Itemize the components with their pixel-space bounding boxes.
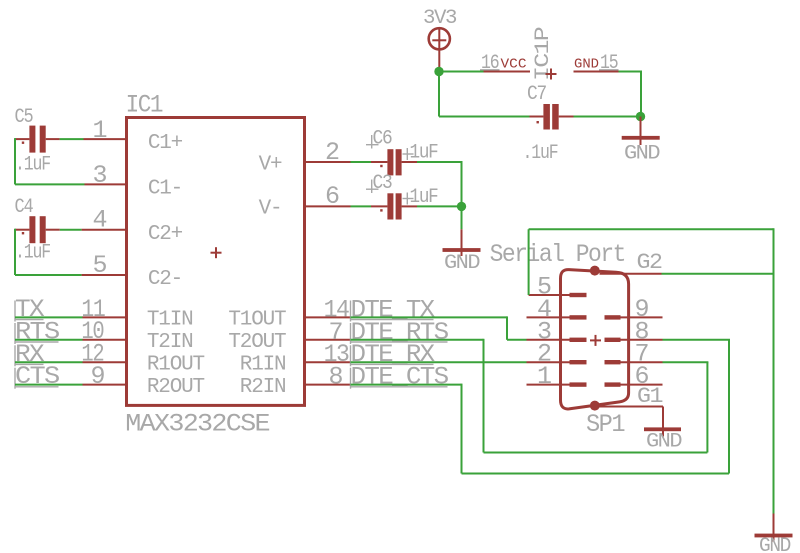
svg-text:8: 8	[329, 362, 343, 391]
net label RX	[15, 340, 45, 369]
pin IC1 pin 5 C2-	[82, 274, 127, 276]
wire C5 left vertical	[14, 138, 16, 184]
net label DTE_RTS	[351, 318, 449, 347]
wire GND net vertical	[640, 71, 642, 117]
net label RTS	[15, 317, 59, 346]
net label DTE_CTS	[351, 362, 449, 391]
pin SP1 pin 2	[527, 340, 587, 369]
svg-text:4: 4	[93, 205, 107, 234]
pin IC1 pin 1 C1+	[84, 138, 127, 140]
pin SP1 pin 6	[605, 362, 663, 391]
svg-text:3: 3	[93, 161, 107, 190]
wire RTS	[15, 339, 83, 341]
pin SP1 pin 1	[527, 362, 587, 391]
net label TX	[15, 295, 45, 324]
svg-text:1: 1	[93, 116, 107, 145]
pin SP1 G2	[600, 250, 662, 275]
wire GND net to corner	[619, 71, 642, 73]
pin SP1 pin 9	[605, 295, 663, 324]
label C3 with origin cross	[366, 172, 392, 195]
svg-text:C7: C7	[527, 83, 546, 106]
pin SP1 pin 8	[605, 317, 663, 346]
capacitor C4	[15, 216, 60, 243]
svg-text:C1+: C1+	[148, 132, 183, 155]
svg-text:Serial Port: Serial Port	[490, 240, 625, 269]
connector SP1 DB9 shell	[561, 270, 629, 409]
wire C3 to junction	[417, 205, 462, 207]
ground GND bottom right	[755, 514, 793, 553]
wire DTE_CTS to SP1 pin 8	[663, 339, 731, 341]
pin IC1P pin 16 VCC	[484, 71, 531, 73]
wire C6 vertical down	[461, 161, 463, 206]
svg-text:T1OUT: T1OUT	[228, 309, 286, 332]
junction node V- GND	[457, 202, 466, 211]
wire DTE_RTS bottom	[484, 452, 708, 454]
svg-text:C3: C3	[373, 172, 392, 195]
net label DTE_TX	[351, 295, 436, 324]
wire TX	[15, 316, 83, 318]
wire RX	[15, 361, 83, 363]
wire C5 to pin 1	[60, 138, 84, 140]
connector SP1 mounting hole G1	[590, 401, 600, 411]
svg-text:5: 5	[93, 251, 107, 280]
pin SP1 pin 4	[527, 295, 587, 324]
capacitor C5	[15, 126, 60, 153]
ground GND middle	[443, 229, 481, 275]
wire VCC net vertical	[438, 72, 440, 117]
value 1uF of C3 with origin cross	[403, 186, 438, 209]
pin IC1 pin 12 R1OUT	[83, 361, 127, 363]
pin IC1 pin 13 R1IN	[305, 361, 351, 363]
capacitor C7	[530, 104, 574, 130]
svg-text:9: 9	[91, 362, 105, 391]
junction 3V3 node	[434, 67, 443, 76]
wire GND net top horizontal	[529, 228, 774, 230]
pin IC1 pin 11 T1IN	[83, 316, 127, 318]
svg-text:C6: C6	[373, 128, 392, 151]
wire DTE_CTS vertical right	[728, 340, 730, 474]
svg-text:SP1: SP1	[586, 410, 625, 439]
svg-text:DTE_CTS: DTE_CTS	[351, 362, 449, 391]
pin IC1 pin 7 T2OUT	[305, 339, 351, 341]
svg-text:GND: GND	[574, 57, 599, 73]
wire DTE_TX horizontal	[351, 316, 508, 318]
supply symbol 3V3	[429, 28, 450, 50]
wire DTE_RTS horizontal	[351, 339, 484, 341]
wire C5 bottom to pin 3	[15, 183, 85, 185]
svg-text:MAX3232CSE: MAX3232CSE	[125, 410, 269, 439]
svg-text:V-: V-	[259, 198, 282, 221]
svg-text:T2IN: T2IN	[147, 331, 193, 354]
wire DTE_RTS vertical left	[483, 339, 485, 453]
wire DTE_RTS vertical right	[706, 362, 708, 452]
pin SP1 pin 3	[527, 317, 587, 346]
pin SP1 G1	[600, 384, 664, 409]
svg-text:IC1: IC1	[126, 90, 163, 119]
svg-text:G1: G1	[637, 384, 663, 409]
svg-text:C2+: C2+	[148, 223, 183, 246]
svg-text:1: 1	[537, 362, 551, 391]
wire DTE_RX to SP1 pin 2	[351, 361, 527, 363]
ground GND at G1	[644, 407, 681, 454]
svg-text:V+: V+	[259, 153, 282, 176]
pin IC1 pin 10 T2IN	[83, 339, 127, 341]
svg-text:2: 2	[325, 138, 339, 167]
wire GND net right vertical	[773, 228, 775, 513]
junction node at C7 right	[636, 112, 645, 121]
svg-text:.1uF: .1uF	[15, 241, 50, 264]
pin IC1 pin 2 V+	[305, 161, 351, 163]
wire SP1 pin 5 vertical	[528, 229, 530, 295]
svg-text:3V3: 3V3	[423, 7, 456, 30]
wire C4 bottom to pin 5	[15, 274, 82, 276]
pin IC1 pin 4 C2+	[82, 229, 127, 231]
svg-text:.1uF: .1uF	[15, 153, 50, 176]
pin IC1 pin 9 R2OUT	[83, 384, 127, 386]
wire G2 to GND net	[662, 273, 774, 275]
wire junction down	[461, 206, 463, 229]
pin IC1 pin 8 R2IN	[305, 384, 351, 386]
wire 3V3 lead	[438, 49, 440, 72]
svg-text:16: 16	[481, 52, 499, 75]
svg-text:C2-: C2-	[148, 268, 182, 291]
svg-text:C1-: C1-	[148, 178, 182, 201]
wire V- to C3	[351, 205, 372, 207]
pin SP1 pin 7	[605, 340, 663, 369]
svg-text:R1IN: R1IN	[240, 354, 286, 377]
svg-text:GND: GND	[646, 431, 681, 454]
wire DTE_RTS to SP1 pin 7	[663, 361, 709, 363]
label C6 with origin cross	[366, 128, 392, 151]
pin number 15	[599, 52, 619, 75]
svg-text:T2OUT: T2OUT	[228, 331, 286, 354]
wire DTE_TX vertical	[506, 316, 508, 339]
svg-text:6: 6	[325, 182, 339, 211]
wire DTE_CTS bottom	[462, 473, 730, 475]
pin IC1 pin 6 V-	[305, 205, 351, 207]
wire DTE_CTS vertical left	[461, 384, 463, 474]
ground GND top	[622, 117, 660, 166]
IC1 origin cross	[211, 247, 222, 258]
svg-text:T1IN: T1IN	[147, 309, 193, 332]
capacitor C3	[371, 193, 417, 219]
capacitor C6	[371, 149, 417, 175]
wire C7 to GND junction	[574, 116, 641, 118]
connector SP1 mounting hole G2	[590, 266, 600, 276]
wire DTE_CTS horizontal	[351, 384, 462, 386]
wire V+ to C6	[351, 161, 372, 163]
svg-text:G2: G2	[637, 250, 662, 275]
net label CTS	[15, 362, 59, 391]
power gate origin cross	[546, 69, 557, 80]
wire DTE_TX to SP1 pin 3	[507, 339, 527, 341]
pin SP1 pin 5	[529, 273, 587, 302]
wire CTS	[15, 384, 83, 386]
svg-text:C5: C5	[15, 106, 33, 129]
svg-text:GND: GND	[444, 252, 479, 275]
svg-text:GND: GND	[759, 535, 790, 553]
wire C4 left vertical	[14, 229, 16, 275]
pin number 16	[480, 52, 500, 75]
svg-text:GND: GND	[624, 143, 659, 166]
svg-text:R2IN: R2IN	[240, 376, 286, 399]
svg-text:.1uF: .1uF	[523, 142, 558, 165]
wire VCC net to C7	[439, 116, 530, 118]
net label DTE_RX	[351, 340, 436, 369]
pin IC1 pin 14 T1OUT	[305, 316, 351, 318]
svg-text:R2OUT: R2OUT	[147, 376, 205, 399]
pin IC1 pin 3 C1-	[85, 183, 127, 185]
wire VCC net horizontal	[439, 71, 484, 73]
IC U1 MAX3232CSE body	[127, 118, 305, 406]
wire C4 to pin 4	[60, 229, 82, 231]
connector SP1 origin cross	[590, 335, 601, 346]
value 1uF of C6 with origin cross	[403, 142, 438, 165]
wire C6 to corner	[417, 161, 462, 163]
svg-text:C4: C4	[15, 196, 33, 219]
pin IC1P pin 15 GND	[574, 71, 619, 73]
svg-text:CTS: CTS	[15, 362, 59, 391]
svg-text:R1OUT: R1OUT	[147, 354, 205, 377]
svg-text:VCC: VCC	[501, 57, 527, 73]
